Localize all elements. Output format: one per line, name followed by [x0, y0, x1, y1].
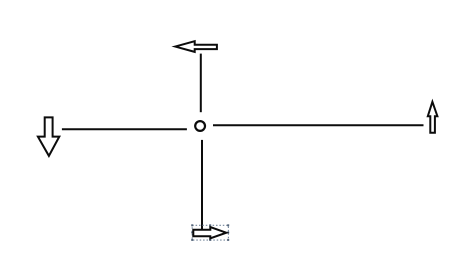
- wire right branch: [213, 124, 424, 126]
- wire left branch: [62, 128, 187, 130]
- current arrow top (hollow block arrow pointing left): [175, 41, 217, 52]
- selection box around bottom arrow (dashed): [192, 225, 228, 240]
- current arrow bottom (hollow block arrow pointing right, selected): [193, 227, 226, 238]
- current arrow left (hollow block arrow pointing down): [38, 117, 59, 155]
- current arrow right (hollow block arrow pointing up): [428, 102, 438, 133]
- selection handles: [191, 224, 229, 241]
- node (open circle junction): [195, 121, 205, 131]
- wire top branch: [200, 54, 202, 113]
- wire bottom branch: [201, 140, 203, 230]
